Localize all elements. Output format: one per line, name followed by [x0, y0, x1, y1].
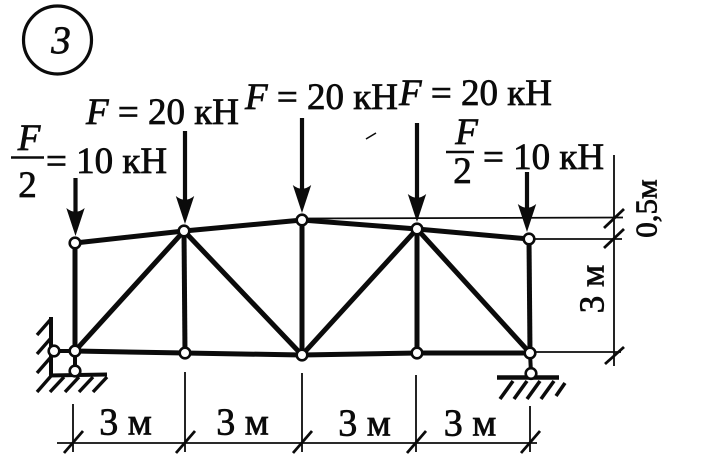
node T3	[297, 215, 308, 226]
vertical member 5	[529, 239, 530, 353]
svg-text:0,5м: 0,5м	[629, 179, 664, 237]
diagonal member T2-B3	[184, 231, 302, 355]
svg-text:3 м: 3 м	[216, 402, 269, 444]
arrowhead 3	[293, 185, 311, 213]
left lower pin	[70, 366, 81, 377]
force arrow 2	[183, 131, 187, 202]
tick 0.5m top	[604, 209, 624, 228]
diagonal member B1-T2	[75, 231, 184, 351]
node B5	[525, 348, 536, 359]
fraction bar left	[11, 156, 44, 159]
extension line x1	[72, 404, 74, 452]
svg-text:3: 3	[50, 19, 71, 62]
arrowhead 5	[518, 204, 536, 232]
svg-text:2: 2	[18, 165, 37, 206]
svg-text:= 10 кН: = 10 кН	[46, 141, 167, 182]
tick 0.5m bottom	[604, 229, 624, 248]
extension line x5	[529, 406, 531, 452]
extension line x4	[415, 375, 417, 452]
svg-text:3 м: 3 м	[99, 402, 152, 444]
extension line x3	[301, 373, 303, 452]
right support link down	[530, 353, 531, 373]
diagonal member B3-T4	[302, 229, 417, 355]
force arrow 5	[525, 172, 529, 210]
node B1	[70, 346, 81, 357]
top chord	[75, 220, 529, 243]
stray scan mark	[366, 133, 376, 139]
arrowhead 1	[66, 208, 84, 236]
extension line x2	[184, 372, 186, 452]
force arrow 4	[415, 123, 419, 200]
svg-text:= 10 кН: = 10 кН	[483, 137, 604, 178]
left wall pin	[49, 346, 60, 357]
node T2	[179, 226, 190, 237]
thin reference line from right bottom node	[530, 351, 621, 353]
left wall hatching	[37, 319, 51, 392]
node T5	[524, 234, 535, 245]
svg-text:F = 20 кН: F = 20 кН	[244, 77, 398, 118]
svg-text:F: F	[17, 118, 41, 159]
vertical member 1	[73, 243, 78, 351]
node B4	[412, 348, 423, 359]
left support ground	[49, 375, 107, 376]
node T1	[70, 238, 81, 249]
tick 3m bottom	[605, 347, 624, 364]
thin reference line from right top node	[529, 238, 622, 240]
left ground hatching	[50, 377, 107, 392]
node B3	[297, 350, 308, 361]
diagonal member T4-B5	[417, 229, 530, 353]
arrowhead 2	[176, 196, 194, 224]
svg-text:F = 20 кН: F = 20 кН	[85, 92, 239, 133]
svg-text:F = 20 кН: F = 20 кН	[398, 73, 552, 114]
right roller pin	[526, 368, 537, 379]
left support wall	[49, 317, 53, 375]
vertical member 3	[300, 220, 305, 355]
vertical member 2	[184, 231, 185, 353]
figure number circle 3	[24, 6, 92, 74]
horizontal dimension line	[57, 442, 537, 444]
right support ground	[497, 375, 559, 379]
bottom chord	[75, 351, 530, 355]
svg-text:3 м: 3 м	[338, 403, 391, 445]
dim ticks bottom	[64, 431, 540, 453]
svg-text:3 м: 3 м	[444, 403, 497, 445]
svg-text:F: F	[454, 112, 478, 153]
thin reference line from mid top node	[302, 218, 623, 219]
svg-text:2: 2	[453, 151, 472, 192]
node B2	[180, 348, 191, 359]
left support link down	[73, 351, 77, 371]
vertical member 4	[415, 229, 420, 353]
node T4	[412, 224, 423, 235]
right ground hatching	[500, 381, 565, 399]
vertical dimension line	[613, 155, 615, 366]
force arrow 3	[300, 118, 304, 191]
force arrow 1	[73, 178, 77, 214]
left support link to wall	[54, 349, 75, 353]
fraction bar right	[446, 151, 474, 154]
arrowhead 4	[408, 194, 426, 222]
svg-text:3 м: 3 м	[573, 265, 612, 313]
